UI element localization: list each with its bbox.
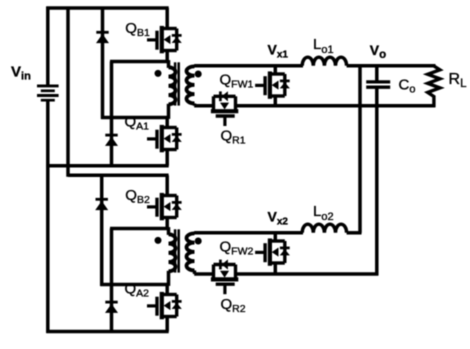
wire primary1 bottom stub (167, 104, 171, 119)
wire sec GND1 rail right (235, 104, 435, 108)
wire top V+ rail (46, 6, 168, 10)
wire QB2 source (165, 218, 169, 230)
wire QA2 drain (165, 285, 169, 295)
transistor QR1 (211, 91, 238, 126)
transformer T1 primary dot (155, 70, 162, 77)
wire V+ feed rail x68 (66, 7, 70, 177)
transformer T1 primary winding (169, 67, 176, 104)
wire QA1 source (165, 150, 169, 166)
inductor Lo2 (302, 224, 346, 233)
wire primary2 bottom stub (167, 271, 171, 286)
transistor QFW1 (255, 71, 290, 98)
wire sec GND2 rail left (194, 272, 215, 276)
wire Co bottom lead (375, 87, 379, 275)
wire primary1 bottom horizontal (101, 116, 168, 120)
wire QFW1 source (274, 96, 278, 106)
wire primary2 top horizontal (110, 227, 169, 231)
wire clamp branch DA1 (110, 62, 114, 166)
transformer T1 secondary winding (187, 66, 195, 103)
wire Lo2 to Vo riser (347, 231, 362, 235)
transistor QB2 (147, 193, 182, 220)
diode DB1 (96, 31, 108, 34)
transistor QA2 (147, 292, 182, 319)
wire QFW2 drain (274, 233, 278, 241)
wire primary GND1 rail (46, 164, 168, 168)
transistor QFW2 (255, 238, 290, 265)
transformer T2 core (174, 229, 177, 272)
diode DB2 (96, 198, 108, 201)
wire primary1 top horizontal (110, 60, 169, 64)
wire diode DB1 branch (101, 7, 105, 120)
wire Vo drop to phase2 (358, 64, 362, 233)
transformer T2 primary winding (169, 234, 176, 271)
wire Co top lead (375, 64, 379, 82)
wire primary2 top stub (167, 227, 171, 235)
diode DA2 (105, 301, 117, 304)
transformer T2 secondary winding (187, 233, 195, 270)
wire left rail upper (battery +) (46, 7, 50, 85)
wire QB1 source (165, 51, 169, 63)
wire primary2 bottom horizontal (100, 283, 168, 287)
wire QA2 source (165, 317, 169, 332)
resistor RL (428, 64, 440, 107)
wire QA1 drain (165, 118, 169, 128)
wire bottom rail (46, 330, 168, 334)
transformer T1 secondary dot (195, 71, 202, 78)
transistor QR2 (211, 259, 238, 294)
transistor QB1 (147, 26, 182, 53)
wire QFW2 source (274, 263, 278, 274)
battery Vin (37, 84, 59, 87)
wire sec GND1 rail left (194, 104, 215, 108)
wire diode DB2 branch (100, 174, 104, 286)
wire QB2 drain feed (165, 175, 169, 195)
transistor QA1 (147, 125, 182, 152)
wire Vx2 rail (194, 231, 303, 235)
wire sec GND2 rail right (235, 272, 378, 276)
capacitor Co (366, 80, 390, 83)
wire Vx1 rail (194, 64, 303, 68)
transformer T2 primary dot (155, 237, 162, 244)
wire QB1 drain (165, 8, 169, 29)
inductor Lo1 (302, 57, 346, 66)
wire V+ feed horizontal (68, 174, 169, 178)
wire primary1 top stub (167, 60, 171, 68)
wire QFW1 drain (274, 66, 278, 74)
wire left rail lower (battery -) (46, 101, 50, 333)
transformer T2 secondary dot (195, 238, 202, 245)
diode DA1 (105, 134, 117, 137)
wire clamp branch DA2 (110, 229, 114, 333)
transformer T1 core (174, 62, 177, 105)
wire Vo rail (347, 64, 436, 68)
